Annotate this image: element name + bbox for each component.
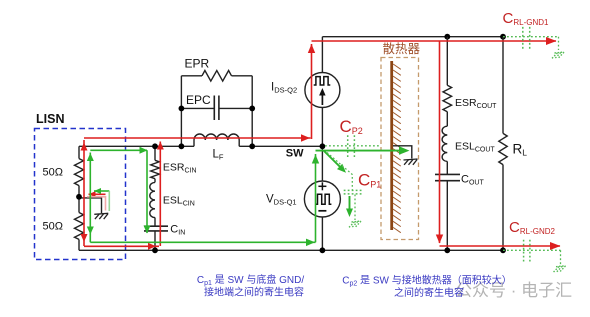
red loop: heatsink-side vertical	[439, 41, 441, 243]
node: EPC left	[179, 106, 185, 112]
wire: V-source to bottom rail	[321, 217, 323, 250]
ground: C_RL-GND2 dotted	[553, 266, 565, 273]
green loop: LISN vertical	[89, 153, 91, 243]
green loop: top horizontal to C_IN	[90, 149, 147, 151]
svg-text:EPR: EPR	[185, 57, 210, 71]
resistor 50ohm upper	[75, 159, 84, 186]
node: bottom junction COUT	[444, 247, 450, 253]
node: rail junction EPR right	[249, 143, 255, 149]
wire: SW to I-source	[321, 108, 323, 147]
wire: heatsink to ground	[393, 146, 412, 159]
resistor EPR	[202, 71, 232, 82]
wire: SW to V-source	[321, 146, 323, 181]
node: EPC right	[249, 106, 255, 112]
node: SW	[320, 143, 326, 149]
wire: EPR/EPC right branch	[251, 76, 253, 147]
node: bottom junction V	[320, 247, 326, 253]
wire: L_F step-ups	[193, 140, 195, 146]
capacitor C_RL-GND1 dotted path	[503, 36, 559, 38]
wire: bottom rail	[79, 249, 503, 251]
current source I_DS-Q2	[305, 73, 340, 108]
red loop: input rail horizontal	[84, 137, 311, 139]
svg-text:50Ω: 50Ω	[43, 167, 63, 179]
LISN dashed box	[35, 129, 126, 260]
green loop: bottom horizontal	[90, 241, 315, 243]
resistor ESR_COUT	[443, 85, 452, 111]
red arrow into LISN mid node	[89, 193, 106, 195]
svg-text:50Ω: 50Ω	[43, 221, 63, 233]
red loop: top horizontal	[312, 40, 557, 42]
node: bottom junction RL	[500, 247, 506, 253]
svg-text:LISN: LISN	[36, 112, 64, 126]
resistor R_L	[502, 37, 504, 134]
plus sign in V_DS-Q1	[318, 185, 326, 187]
inductor L_F	[194, 134, 239, 140]
pulse glyph in I_DS-Q2	[314, 77, 331, 85]
light green return elbow	[108, 191, 110, 211]
svg-text:散热器: 散热器	[383, 41, 421, 56]
wire: I-source to top rail	[321, 37, 323, 73]
node: bottom junction C_IN	[152, 247, 158, 253]
heatsink bar	[390, 61, 393, 230]
red loop: C_IN branch vertical	[159, 142, 161, 247]
node: rail junction C_IN	[152, 143, 158, 149]
wire: input top rail	[79, 145, 194, 147]
svg-text:Cp2 是 SW 与接地散热器（面积较大）: Cp2 是 SW 与接地散热器（面积较大）	[342, 274, 511, 288]
wire: EPR top branch	[181, 75, 202, 77]
node: rail junction EPR left	[179, 143, 185, 149]
capacitor C_P2 dotted path	[325, 145, 381, 147]
svg-text:EPC: EPC	[186, 93, 211, 107]
capacitor C_P1 dotted path upper	[327, 153, 352, 190]
pink return elbow	[87, 197, 106, 211]
wire: LISN mid to ground	[79, 198, 102, 213]
resistor 50ohm lower	[75, 213, 84, 240]
inductor ESL_CIN	[150, 182, 155, 217]
arrow in I_DS-Q2	[321, 91, 323, 105]
green arrow into LISN mid node	[94, 190, 109, 192]
red loop: bottom left horizontal	[84, 245, 159, 247]
svg-text:SW: SW	[286, 147, 304, 159]
heatsink dashed box	[381, 58, 419, 240]
heatsink hatches	[393, 64, 401, 69]
ground: C_RL-GND1 dotted	[552, 52, 564, 59]
green arrow into C_P1 ground	[349, 196, 351, 210]
ground: LISN chassis	[94, 213, 108, 219]
green arrow to heatsink ground	[316, 150, 403, 152]
wire: EPR/EPC left branch	[180, 76, 182, 147]
wire: C_IN branch stubs	[154, 146, 156, 160]
capacitor C_IN	[144, 225, 168, 227]
green loop: C_IN branch vertical	[146, 150, 148, 233]
resistor ESR_CIN	[151, 160, 160, 178]
capacitor C_P1 dotted path lower	[354, 195, 356, 221]
capacitor C_RL-GND2 dotted path	[503, 249, 561, 251]
inductor ESL_COUT	[442, 126, 447, 161]
capacitor EPC	[213, 96, 215, 121]
ground: C_P1 dotted	[349, 221, 361, 228]
capacitor C_RL-GND1 plates	[522, 27, 524, 50]
red loop: bottom right horizontal	[440, 245, 561, 247]
minus sign in V_DS-Q1	[318, 210, 326, 212]
ground: heatsink chassis	[404, 159, 418, 165]
node: top junction COUT	[444, 34, 450, 40]
green loop: V branch vertical	[315, 154, 317, 242]
node: top junction RL	[500, 34, 506, 40]
capacitor C_OUT	[435, 173, 460, 175]
wire: C_OUT branch stubs	[446, 37, 448, 86]
green diagonal arrow to C_P1	[324, 151, 342, 169]
red loop: SW riser vertical	[311, 44, 313, 139]
red loop: LISN vertical	[83, 140, 85, 246]
voltage source V_DS-Q1	[304, 181, 340, 217]
node: LISN mid	[76, 194, 82, 200]
svg-text:之间的寄生电容: 之间的寄生电容	[394, 286, 464, 299]
capacitor C_P2 plates	[347, 135, 349, 157]
svg-text:接地端之间的寄生电容: 接地端之间的寄生电容	[204, 286, 304, 299]
capacitor C_P1 plates	[344, 189, 363, 191]
capacitor C_RL-GND2 plates	[523, 240, 525, 262]
wire: top rail	[322, 36, 503, 38]
svg-text:Cp1 是 SW 与底盘 GND/: Cp1 是 SW 与底盘 GND/	[197, 273, 304, 287]
wire: EPC branch	[181, 107, 214, 109]
pulse glyph in V_DS-Q1	[315, 194, 331, 204]
